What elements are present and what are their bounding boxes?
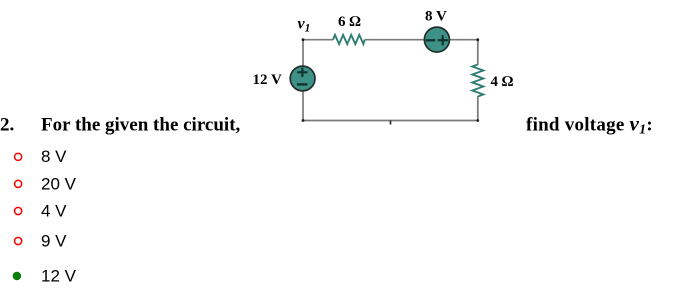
- svg-text:6 Ω: 6 Ω: [338, 14, 361, 30]
- svg-text:8 V: 8 V: [425, 8, 447, 24]
- voltage source V2 8V circle: [424, 27, 449, 52]
- question number 52: [0, 115, 14, 136]
- option radio 5 selected (12 V): [13, 272, 22, 281]
- junction tick on bottom wire: [390, 121, 392, 125]
- svg-text:52.: 52.: [0, 115, 14, 136]
- option text 1: 8 V: [41, 147, 67, 166]
- node v1 label: [298, 16, 311, 35]
- resistor R1 6 ohm zigzag: [333, 35, 365, 44]
- svg-text:8 V: 8 V: [41, 147, 67, 166]
- svg-text:4 Ω: 4 Ω: [491, 74, 514, 90]
- node dot top-right corner: [476, 38, 479, 41]
- node dot bottom-left corner: [302, 119, 305, 122]
- svg-text:12 V: 12 V: [253, 72, 282, 88]
- voltage source V1 value label 12 V: [253, 72, 282, 88]
- option radio 4 (9 V): [15, 237, 22, 244]
- node dot bottom-right corner: [476, 119, 479, 122]
- wire right upper segment: [477, 39, 479, 65]
- resistor R2 4 ohm zigzag: [472, 65, 483, 97]
- wire top-middle segment: [365, 39, 425, 41]
- node dot top-left corner: [302, 38, 305, 41]
- option radio 1 (8 V): [15, 153, 22, 160]
- wire left lower segment: [302, 91, 304, 121]
- question text right part: [526, 112, 653, 138]
- svg-text:12 V: 12 V: [41, 266, 77, 285]
- voltage source V2 value label 8 V: [425, 8, 447, 24]
- option text 2: 20 V: [41, 174, 77, 193]
- wire top-left segment: [303, 39, 333, 41]
- svg-text:20 V: 20 V: [41, 174, 77, 193]
- wire right lower segment: [477, 96, 479, 121]
- svg-text:For the given the circuit,: For the given the circuit,: [41, 115, 241, 136]
- option text 3: 4 V: [41, 202, 67, 221]
- wire bottom segment: [302, 120, 478, 122]
- voltage source V1 12V circle: [290, 66, 315, 91]
- option radio 3 (4 V): [15, 207, 22, 214]
- option text 5: 12 V: [41, 266, 77, 285]
- svg-text:find voltage v1:: find voltage v1:: [526, 112, 653, 138]
- resistor R2 value label 4 ohm: [491, 74, 514, 90]
- svg-text:4 V: 4 V: [41, 202, 67, 221]
- option radio 2 (20 V): [15, 180, 22, 187]
- svg-text:9 V: 9 V: [41, 232, 67, 251]
- wire top-right segment: [449, 39, 478, 41]
- question text left part: [41, 115, 241, 136]
- resistor R1 value label 6 ohm: [338, 14, 361, 30]
- wire left upper segment: [302, 39, 304, 66]
- option text 4: 9 V: [41, 232, 67, 251]
